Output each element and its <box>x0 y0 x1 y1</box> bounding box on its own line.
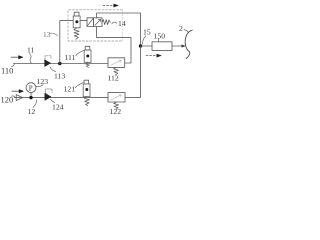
svg-text:123: 123 <box>37 77 49 86</box>
valve 122 internal arrow <box>111 95 122 100</box>
pump 123 circle <box>26 83 36 93</box>
label 15 leader <box>143 36 146 44</box>
valve 122 spring <box>114 102 119 109</box>
svg-text:12: 12 <box>28 107 36 116</box>
wire branch up to regulator valve <box>60 21 73 64</box>
label 110 leader <box>12 64 15 67</box>
svg-text:113: 113 <box>54 72 65 81</box>
output junction node <box>139 44 142 47</box>
svg-text:121: 121 <box>64 85 76 94</box>
check valve 121 spring <box>84 97 89 106</box>
label 150 leader <box>157 39 160 42</box>
relief valve 112 box <box>108 58 125 68</box>
label 124 leader <box>51 99 55 102</box>
label 123 leader <box>35 85 43 87</box>
svg-text:150: 150 <box>154 32 166 41</box>
target surface 2 <box>185 30 192 58</box>
regulator check valve body <box>73 16 80 28</box>
flow arrow into line 11 <box>11 56 23 59</box>
svg-text:124: 124 <box>52 103 64 112</box>
node junction line11 to regulator branch <box>58 62 61 65</box>
wire regulator to solenoid valve 14 <box>80 20 87 22</box>
wire valve 14 top port to output junction <box>97 13 141 45</box>
svg-text:111: 111 <box>65 53 76 62</box>
label 11 leader <box>30 54 32 64</box>
valve 113 cap <box>45 56 51 60</box>
label 14 leader <box>112 22 117 24</box>
svg-text:122: 122 <box>110 107 122 116</box>
valve 113 body <box>45 60 51 67</box>
label 13 leader <box>50 33 58 36</box>
check valve 121 cap <box>84 80 89 84</box>
dashed control arrow top <box>103 5 114 7</box>
svg-text:13: 13 <box>43 30 51 39</box>
regulator ball <box>75 20 78 23</box>
dashed control arrow lower <box>146 55 157 57</box>
regulator check valve in box 13 : cap <box>74 12 79 16</box>
valve 124 cap <box>46 89 53 93</box>
check valve 111 ball <box>86 55 89 58</box>
label 12 leader <box>33 100 37 108</box>
svg-text:14: 14 <box>118 19 126 28</box>
valve 14 internal arrow <box>95 19 101 25</box>
relief valve 122 box <box>108 92 125 102</box>
valve 14 return spring <box>102 20 110 25</box>
check valve 121 body <box>83 84 90 97</box>
valve 124 body <box>45 93 51 100</box>
pump outlet wire <box>30 93 32 98</box>
pump junction node <box>29 96 32 99</box>
check valve 111 body <box>84 50 91 62</box>
valve 112 internal arrow <box>111 60 122 65</box>
svg-text:2: 2 <box>179 24 183 33</box>
wire line 11 <box>14 63 109 65</box>
check valve 111 spring <box>86 63 90 68</box>
inlet check triangle line 12 <box>16 95 22 101</box>
svg-text:110: 110 <box>1 66 13 76</box>
label 113 leader <box>50 67 56 72</box>
wire line 12 <box>15 97 109 99</box>
label 111 leader <box>76 50 84 56</box>
spray arrowhead <box>182 45 185 47</box>
flow arrow into line 12 <box>12 90 23 93</box>
svg-text:P: P <box>29 84 33 92</box>
regulator spring <box>74 28 79 39</box>
wire junction down to valve 122 <box>125 46 140 97</box>
wire valve 14 bottom port to valve 112 <box>97 27 131 64</box>
dashed enclosure box 13 <box>68 10 123 41</box>
svg-text:112: 112 <box>108 74 119 83</box>
svg-text:15: 15 <box>143 28 151 37</box>
label 120 leader <box>12 96 16 98</box>
wire nozzle to target <box>172 45 183 47</box>
valve 112 spring <box>114 67 119 74</box>
label 2 leader <box>184 30 189 33</box>
svg-text:120: 120 <box>1 95 14 105</box>
solenoid diagonal <box>87 18 93 25</box>
wire junction to nozzle <box>141 45 153 47</box>
check valve 111 cap <box>85 46 90 50</box>
check valve 121 ball <box>85 88 88 91</box>
valve 14 main box <box>94 18 103 27</box>
label 121 leader <box>75 83 83 88</box>
svg-text:11: 11 <box>27 46 35 55</box>
nozzle box 150 <box>152 42 172 51</box>
solenoid actuator box of valve 14 <box>87 18 94 27</box>
